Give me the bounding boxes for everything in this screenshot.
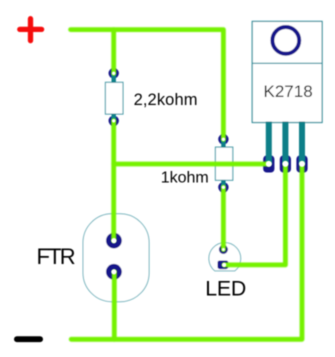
wire: LED cathode right and up to transistor pad 2 [224,164,285,265]
resistor R1 lead bottom [111,114,115,121]
pad LED cathode [218,261,229,270]
transistor pad 2 (middle leg) [280,155,291,172]
wire: top rail to R1 [111,30,116,74]
minus terminal [14,336,43,342]
plus terminal [20,19,42,41]
transistor pad 3 (right leg) [296,155,307,172]
resistor R1 body (2,2kohm) [105,82,123,114]
wire: FTR bottom down to bottom rail [112,272,117,340]
hole LED anode [222,248,225,251]
hole R1 bottom [112,119,115,122]
transistor U1 body K2718 [252,21,322,122]
wire: R2 bottom to LED anode [221,187,226,249]
LED outline [209,243,241,271]
hole FTR top [111,238,116,243]
pad R1 bottom [109,116,119,126]
hole transistor pad 1 [266,161,272,167]
wire: mid horizontal node to transistor pad 1 [114,162,269,167]
transistor leg 1 [266,122,272,164]
hole FTR bottom [111,269,116,274]
transistor pad 1 (left leg) [263,155,274,172]
svg-text:FTR: FTR [37,244,75,269]
resistor R2 lead bottom [221,180,225,187]
transistor body divider [252,62,322,64]
resistor R2 lead top [221,139,225,147]
resistor R2 body (1kohm) [215,147,232,180]
wire: + rail top, corner down to R2 [71,30,224,140]
pad R2 bottom [218,182,228,192]
pad R1 top [109,68,119,78]
wire: transistor pad 3 down and bottom rail to - [71,164,302,339]
pad FTR bottom [106,264,122,280]
hole LED cathode [222,263,226,267]
hole R2 top [222,138,225,141]
pad R2 top [218,134,228,144]
hole transistor pad 3 [299,161,305,167]
pad LED anode [219,245,228,254]
hole R1 top [112,72,115,75]
svg-text:K2718: K2718 [264,82,313,101]
transistor leg 3 [299,122,305,164]
svg-text:LED: LED [205,276,246,300]
svg-text:2,2kohm: 2,2kohm [134,91,198,109]
wire: R1 bottom down to FTR top [111,121,116,241]
hole R2 bottom [222,186,225,189]
relay FTR outline [83,214,149,302]
transistor mounting hole ring [272,27,299,54]
svg-text:1kohm: 1kohm [161,170,209,187]
transistor leg 2 [282,122,288,164]
pad FTR top [106,233,122,249]
resistor R1 lead top [111,73,115,82]
hole transistor pad 2 [282,161,288,167]
